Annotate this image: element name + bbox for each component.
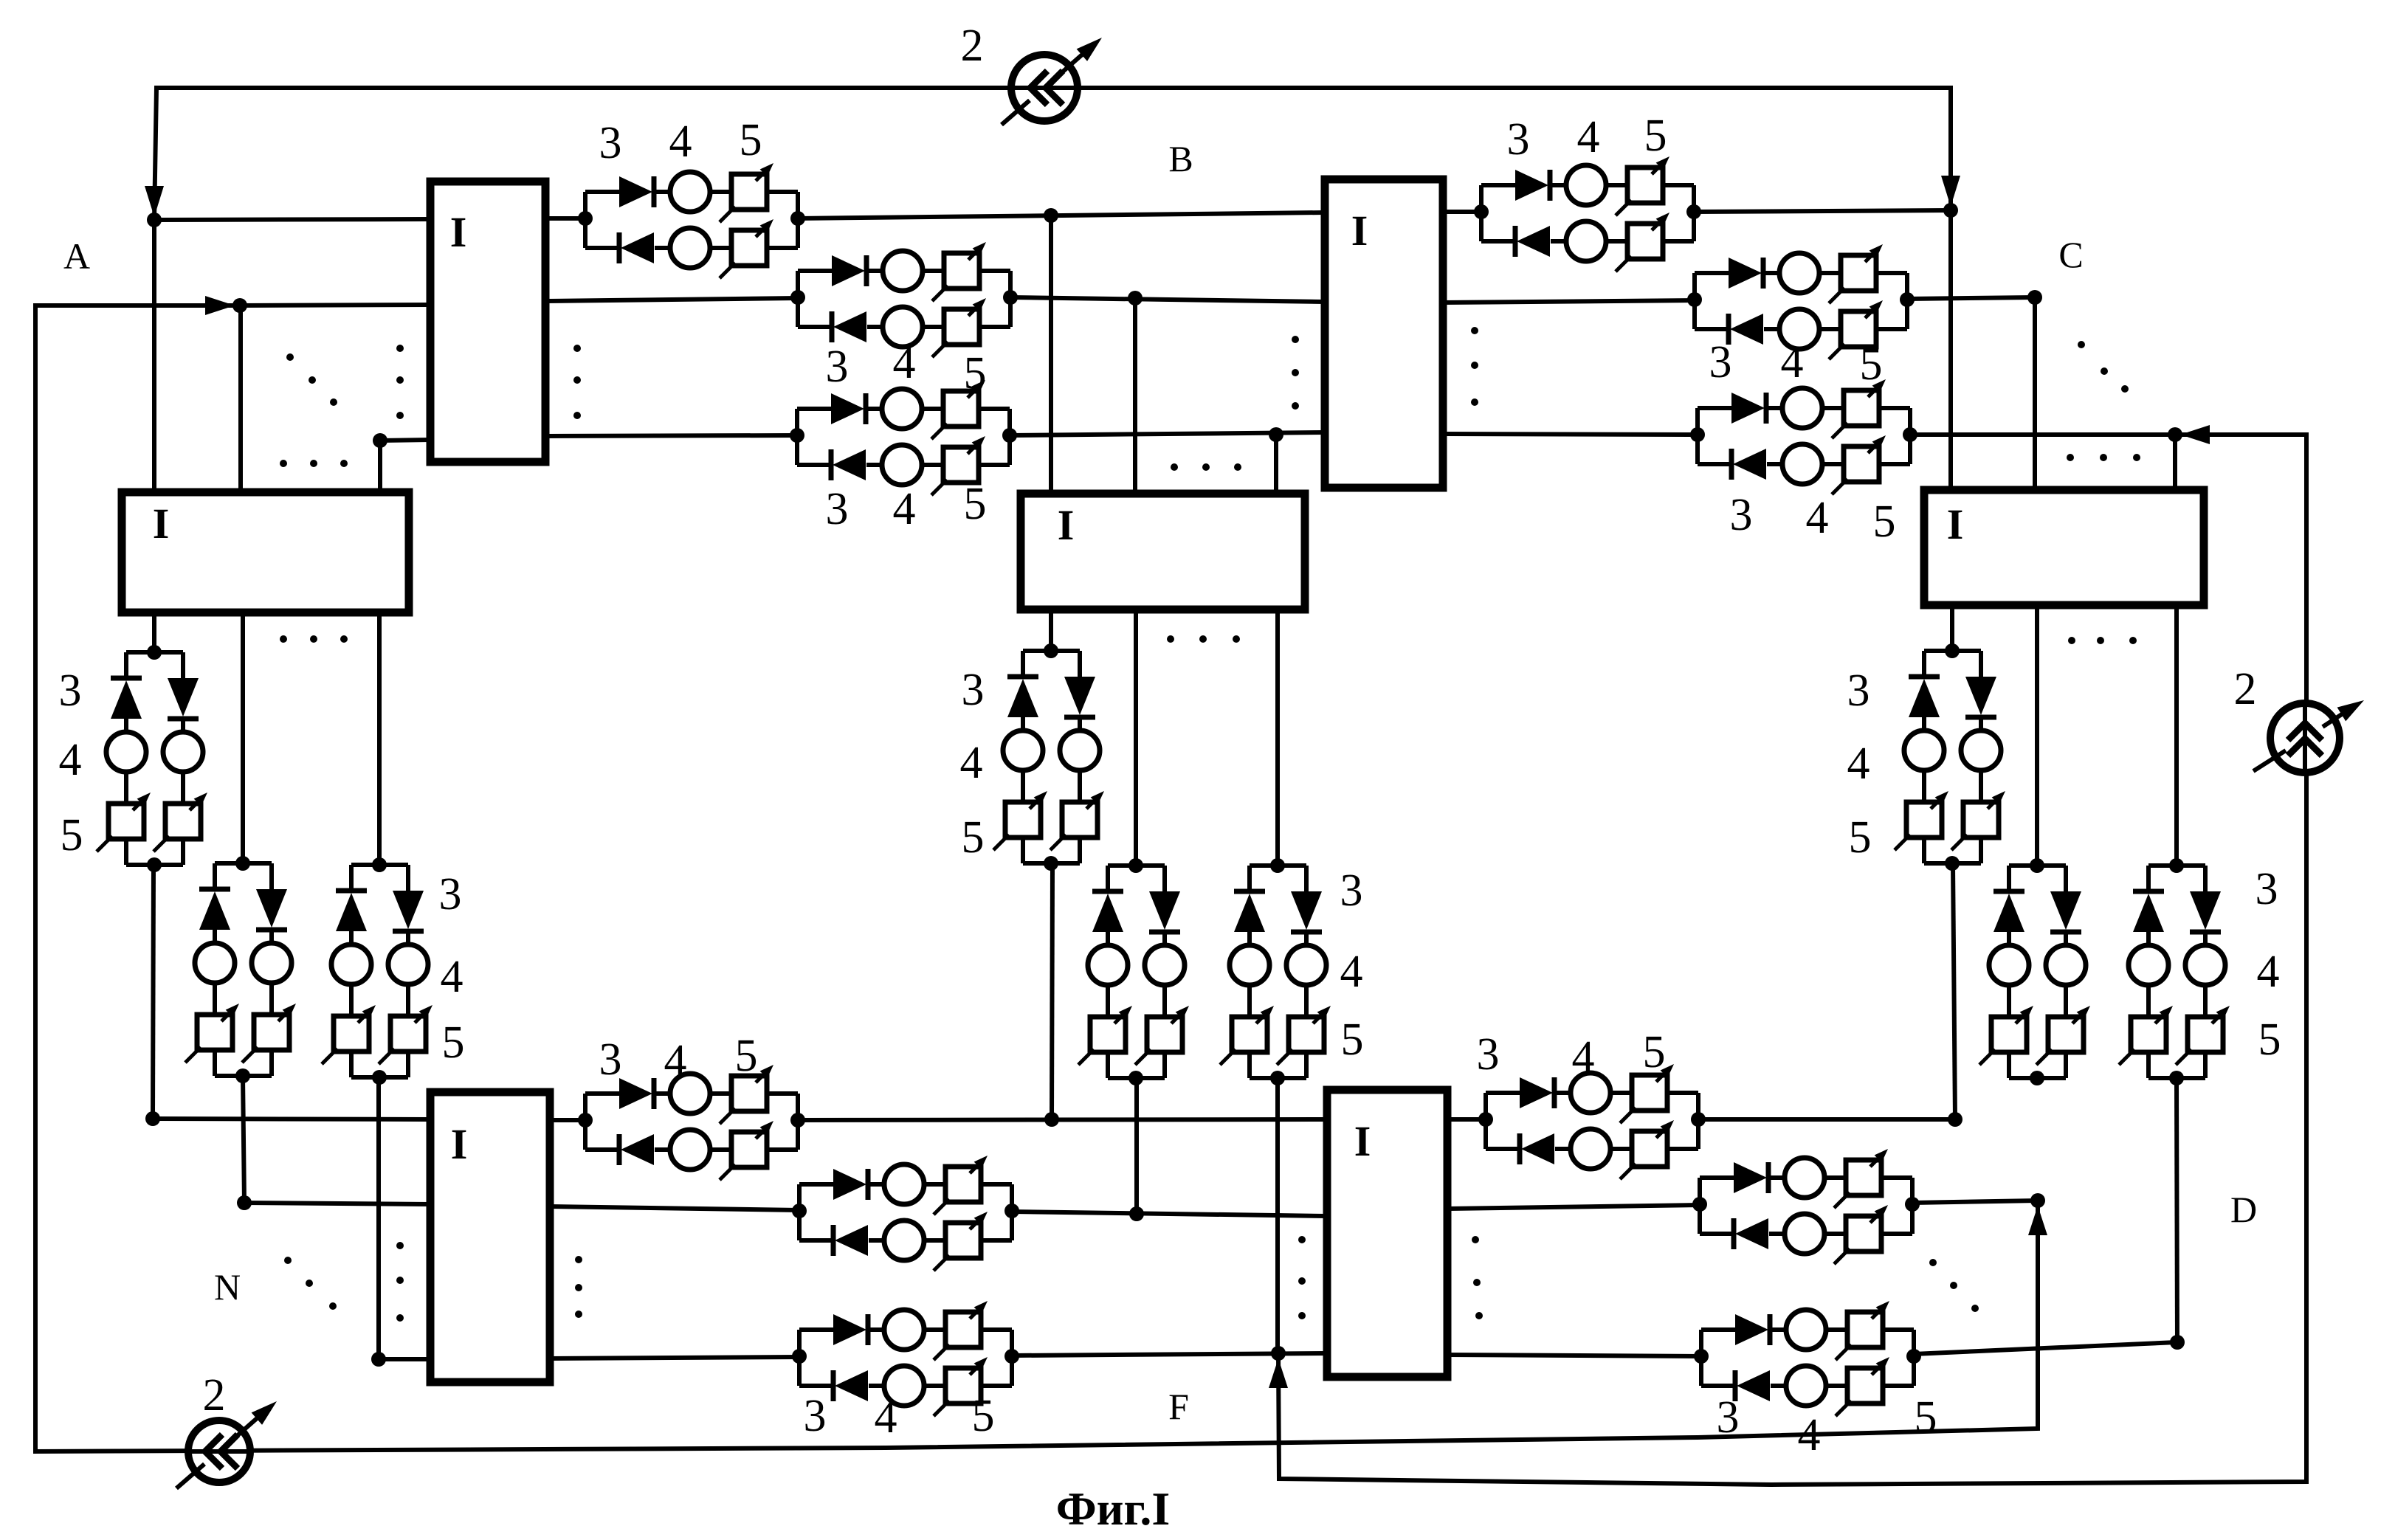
ellipsis dots below MC: [1167, 635, 1174, 643]
svg-text:5: 5: [735, 1031, 758, 1081]
diode 3 link N-F row1 reverse: [617, 1134, 622, 1165]
wire MC block to V6 chain: [1275, 610, 1280, 866]
lamp 4 V6 below mid-center left: [1230, 945, 1269, 985]
lamp 4 link N-F row2 forward: [884, 1164, 924, 1204]
diode 3 V7 below mid-right up-column: [1909, 674, 1940, 680]
node row2 right junction: [2027, 290, 2042, 305]
svg-text:5: 5: [61, 810, 83, 860]
diode 3 link B-C row1 forward: [1515, 170, 1548, 201]
wire bottom row1 left segment: [153, 1119, 430, 1119]
wire drop row3 to MC block: [1274, 435, 1278, 494]
svg-text:4: 4: [1781, 337, 1804, 387]
wire row2 chain to TR block: [1010, 297, 1325, 302]
wire V6 below mid-center top bracket: [1250, 863, 1306, 868]
attenuator 5 V5 below mid-center right: [1147, 1017, 1182, 1052]
wire bottom row2 BL block to chain: [550, 1206, 799, 1210]
svg-text:5: 5: [1915, 1392, 1937, 1443]
wire drop row3 right to MR block: [2173, 435, 2177, 490]
diode 3 link A-B row1 forward: [619, 176, 652, 207]
node V8 below mid-right bottom junction: [2030, 1071, 2044, 1085]
svg-text:Фиг.I: Фиг.I: [1056, 1482, 1171, 1535]
regulator 2 bottom-left perimeter adjust arrow: [176, 1464, 204, 1488]
wire MR block to V8 chain: [2035, 605, 2039, 866]
diode 3 link F-D row3 forward: [1735, 1314, 1768, 1345]
diode 3 link A-B row1 reverse: [617, 232, 622, 263]
lamp 4 link F-D row2 reverse: [1785, 1214, 1824, 1254]
attenuator 5 link A-B row3 reverse: [943, 447, 979, 483]
svg-text:4: 4: [669, 117, 692, 167]
lamp 4 link B-C row2 reverse: [1779, 309, 1819, 349]
diode 3 link B-C row2 forward: [1729, 258, 1762, 289]
switch unit I block top-right: [1325, 179, 1443, 488]
diode 3 V2 below mid-left down-column: [256, 889, 287, 928]
wire MC block to V5 chain: [1134, 610, 1138, 866]
node V1 below mid-left bottom junction: [147, 857, 162, 872]
wire link A-B row2 bottom branch: [798, 325, 833, 329]
wire bottom row3 BL block to chain: [550, 1357, 799, 1358]
diode 3 V2 below mid-left up-column: [199, 887, 230, 892]
attenuator 5 V1 below mid-left right: [165, 804, 201, 839]
node V4 below mid-center feed junction: [1044, 643, 1058, 658]
node link N-F row1 left junction: [578, 1113, 593, 1128]
regulator 2 right perimeter adjust arrow: [2253, 750, 2286, 771]
wire link F-D row1 left bracket: [1483, 1093, 1488, 1149]
svg-text:3: 3: [59, 666, 82, 716]
svg-text:3: 3: [1717, 1392, 1740, 1443]
attenuator 5 link F-D row2 reverse: [1846, 1216, 1881, 1251]
diode 3 V8 below mid-right up-column: [1993, 889, 2024, 894]
attenuator 5 link B-C row1 forward: [1627, 168, 1663, 203]
wire row2 TL block to chain: [545, 298, 798, 301]
svg-text:5: 5: [1341, 1015, 1364, 1065]
node V3 below mid-left feed junction: [372, 857, 387, 872]
attenuator 5 V6 below mid-center left: [1232, 1017, 1267, 1052]
lamp 4 link F-D row3 reverse: [1786, 1366, 1826, 1406]
arrowhead top bypass into A junction: [145, 186, 164, 217]
svg-text:I: I: [1354, 1117, 1371, 1165]
lamp 4 link A-B row3 forward: [882, 389, 922, 429]
node link B-C row2 right junction: [1900, 292, 1915, 307]
node row2 left junction: [232, 298, 247, 313]
node V9 below mid-right feed junction: [2169, 858, 2184, 873]
wire link F-D row2 left bracket: [1698, 1178, 1702, 1234]
ellipsis dots right of BL col: [575, 1256, 582, 1263]
wire link A-B row1 right bracket: [796, 192, 800, 248]
wire V9 below mid-right top bracket: [2148, 863, 2205, 868]
wire V2 chain to bottom row2: [243, 1076, 244, 1203]
node link N-F row3 right junction: [1004, 1349, 1019, 1364]
svg-text:5: 5: [964, 348, 987, 398]
diode 3 V9 below mid-right down-column: [2190, 891, 2221, 930]
diode 3 link B-C row1 reverse: [1513, 226, 1518, 257]
node link A-B row1 right junction: [790, 211, 805, 226]
svg-text:3: 3: [599, 118, 622, 168]
node V2 below mid-left feed junction: [235, 856, 250, 871]
attenuator 5 link B-C row3 forward: [1844, 390, 1879, 426]
diode 3 V1 below mid-left up-column: [111, 676, 142, 681]
wire link B-C row1 right bracket: [1692, 185, 1696, 241]
wire V6 below mid-center bottom bracket: [1247, 1052, 1252, 1078]
wire V8 below mid-right bottom bracket: [2007, 1052, 2011, 1078]
node top bypass/row1 right junction: [1943, 203, 1958, 218]
wire link F-D row1 bottom branch: [1486, 1147, 1521, 1151]
diode 3 link N-F row1 forward: [619, 1078, 652, 1109]
wire link B-C row3 bottom branch: [1698, 462, 1733, 466]
lamp 4 link B-C row2 forward: [1779, 253, 1819, 293]
node link A-B row3 left junction: [790, 428, 804, 443]
wire V5 below mid-center bottom bracket: [1106, 1052, 1110, 1078]
wire link B-C row1 bottom branch: [1481, 239, 1517, 244]
regulator 2 top bypass adjust arrow: [1002, 100, 1030, 125]
attenuator 5 link A-B row1 reverse: [731, 230, 767, 266]
wire row1 right chain to C drop: [1694, 210, 1951, 212]
svg-text:B: B: [1168, 138, 1193, 179]
wire MR block to V7 chain: [1950, 605, 1954, 651]
arrowhead right perimeter up into F junction: [1269, 1358, 1288, 1388]
node link F-D row1 right junction: [1691, 1112, 1706, 1127]
wire V3 chain to bottom row3: [376, 1077, 381, 1359]
wire row2 left segment (perimeter to TL block): [240, 305, 430, 305]
wire V1 below mid-left mid links: [124, 719, 128, 732]
attenuator 5 link F-D row3 forward: [1847, 1312, 1883, 1347]
lamp 4 link F-D row1 forward: [1571, 1073, 1610, 1113]
attenuator 5 V6 below mid-center right: [1289, 1017, 1324, 1052]
wire V2 below mid-left bottom bracket: [213, 1050, 217, 1076]
wire left+bottom perimeter (regulator 2 loop): [35, 305, 2038, 1451]
wire V9 below mid-right mid links: [2146, 932, 2151, 945]
node link B-C row2 left junction: [1687, 292, 1702, 307]
svg-text:5: 5: [962, 812, 985, 863]
wire link F-D row3 bottom branch: [1701, 1384, 1737, 1388]
svg-text:3: 3: [1340, 866, 1363, 916]
svg-text:3: 3: [826, 342, 849, 392]
wire link N-F row2 right bracket: [1010, 1184, 1014, 1240]
diode 3 V3 below mid-left down-column: [393, 891, 424, 929]
arrowhead perimeter up into V8 junction: [2028, 1206, 2047, 1235]
wire drop row2 right to MR block: [2033, 297, 2037, 490]
lamp 4 V8 below mid-right right: [2046, 945, 2086, 985]
lamp 4 link F-D row3 forward: [1786, 1310, 1826, 1350]
wire V2 below mid-left mid links: [213, 930, 217, 943]
svg-text:5: 5: [964, 479, 987, 529]
ellipsis dots right of BR col: [1472, 1236, 1479, 1243]
wire bottom row1 chain to BR block: [798, 1119, 1327, 1120]
attenuator 5 link N-F row1 reverse: [731, 1132, 767, 1167]
wire V5 chain to bottom row2: [1134, 1078, 1139, 1214]
lamp 4 link N-F row3 reverse: [884, 1366, 924, 1406]
wire V9 below mid-right bottom bracket: [2146, 1052, 2151, 1078]
wire link A-B row3 left bracket: [795, 409, 799, 465]
wire V4 chain to bottom row1: [1052, 863, 1052, 1119]
svg-text:5: 5: [2258, 1015, 2281, 1065]
svg-text:4: 4: [1847, 739, 1870, 789]
wire V4 below mid-center top bracket: [1023, 649, 1080, 653]
wire link F-D row2 top branch: [1700, 1175, 1735, 1180]
lamp 4 link N-F row2 reverse: [884, 1220, 924, 1260]
diode 3 V4 below mid-center down-column: [1064, 677, 1095, 715]
attenuator 5 link N-F row3 reverse: [945, 1368, 981, 1403]
wire V8 below mid-right mid links: [2007, 932, 2011, 945]
ellipsis dots right of TL col: [573, 345, 581, 352]
node V6 below mid-center feed junction: [1270, 858, 1285, 873]
wire link A-B row3 bottom branch: [797, 463, 833, 467]
wire V5 below mid-center top bracket: [1108, 863, 1165, 868]
lamp 4 V7 below mid-right right: [1961, 731, 2001, 770]
wire V3 below mid-left top bracket: [351, 863, 408, 867]
wire link B-C row1 left bracket: [1479, 185, 1483, 241]
diode 3 V8 below mid-right down-column: [2050, 891, 2081, 930]
lamp 4 link A-B row2 forward: [883, 251, 923, 291]
attenuator 5 V8 below mid-right left: [1991, 1017, 2027, 1052]
arrowhead perimeter into row2 junction: [205, 296, 235, 315]
svg-text:2: 2: [2234, 664, 2257, 714]
node V5 below mid-center bottom junction: [1128, 1071, 1143, 1085]
svg-text:I: I: [451, 1120, 468, 1168]
attenuator 5 V4 below mid-center left: [1005, 802, 1041, 838]
arrowhead top bypass into right drop: [1941, 176, 1960, 207]
node bottom row3/F junction: [1271, 1346, 1286, 1361]
wire MC block to V4 chain: [1049, 610, 1053, 651]
lamp 4 link N-F row1 forward: [670, 1074, 710, 1113]
svg-text:4: 4: [960, 738, 983, 788]
lamp 4 link N-F row3 forward: [884, 1310, 924, 1350]
node V9 below mid-right bottom junction: [2169, 1071, 2184, 1085]
wire link N-F row1 left bracket: [583, 1094, 587, 1150]
node bottom row1 left end junction: [145, 1111, 160, 1126]
lamp 4 link A-B row1 forward: [670, 172, 710, 212]
diode 3 V5 below mid-center up-column: [1092, 889, 1123, 894]
diode 3 link F-D row1 forward: [1520, 1077, 1553, 1108]
node link A-B row2 left junction: [790, 290, 805, 305]
wire V9 chain to bottom row3 end: [2177, 1078, 2177, 1342]
wire ML block to V3 chain: [377, 612, 382, 865]
wire drop row1 to MC block: [1049, 215, 1053, 494]
ellipsis dots below ML: [280, 635, 287, 643]
node bottom row3 right end junction: [2170, 1335, 2185, 1350]
svg-text:4: 4: [664, 1036, 687, 1086]
svg-text:5: 5: [972, 1391, 995, 1441]
svg-text:5: 5: [1849, 812, 1872, 863]
attenuator 5 link F-D row1 forward: [1632, 1075, 1667, 1111]
node link F-D row2 left junction: [1692, 1197, 1707, 1212]
diode 3 V7 below mid-right down-column: [1965, 677, 1996, 715]
attenuator 5 link N-F row2 reverse: [945, 1223, 981, 1258]
wire drop A junction to ML block: [152, 220, 156, 492]
node bottom row2 right end junction: [2030, 1193, 2045, 1208]
diode 3 link B-C row2 reverse: [1726, 314, 1731, 345]
lamp 4 link A-B row1 reverse: [670, 228, 710, 268]
wire V2 below mid-left top bracket: [215, 861, 272, 866]
svg-text:5: 5: [442, 1018, 465, 1068]
switch unit I block mid-center: [1021, 494, 1305, 610]
ellipsis dots right of TR col: [1471, 327, 1478, 334]
attenuator 5 V2 below mid-left right: [254, 1015, 289, 1050]
diode 3 link F-D row3 reverse: [1733, 1370, 1738, 1401]
wire bottom row1 BR block to chain: [1447, 1117, 1486, 1122]
attenuator 5 V3 below mid-left left: [334, 1016, 369, 1052]
diode 3 V1 below mid-left down-column: [168, 678, 199, 717]
node link B-C row3 right junction: [1903, 427, 1917, 442]
wire row2 right chain to V-drop: [1907, 297, 2035, 299]
wire V7 below mid-right mid links: [1922, 717, 1926, 731]
lamp 4 link B-C row1 forward: [1566, 165, 1606, 205]
regulator 2 right perimeter: [2270, 703, 2340, 773]
switch unit I block top-left: [430, 182, 545, 462]
wire link F-D row2 bottom branch: [1700, 1232, 1735, 1236]
wire V6 chain to bottom row3: [1275, 1078, 1280, 1353]
wire bottom row2 BR block to chain: [1447, 1205, 1700, 1209]
attenuator 5 link F-D row1 reverse: [1632, 1131, 1667, 1167]
wire V6 below mid-center mid links: [1247, 932, 1252, 945]
wire link N-F row3 top branch: [799, 1327, 835, 1332]
svg-text:4: 4: [875, 1392, 897, 1443]
wire V3 below mid-left mid links: [349, 931, 354, 945]
node link F-D row2 right junction: [1905, 1197, 1920, 1212]
svg-text:4: 4: [1340, 947, 1363, 997]
svg-text:4: 4: [1806, 493, 1829, 543]
wire drop row3 junction to ML block: [378, 441, 382, 492]
ellipsis dots right of BR diag: [1929, 1259, 1937, 1266]
attenuator 5 link A-B row1 forward: [731, 174, 767, 210]
svg-text:3: 3: [2256, 864, 2278, 914]
wire row1 TL block to chain: [545, 216, 585, 221]
node link F-D row3 left junction: [1694, 1349, 1709, 1364]
wire link F-D row1 top branch: [1486, 1091, 1521, 1095]
wire bottom row1 BL block to chain: [550, 1118, 585, 1122]
lamp 4 V4 below mid-center left: [1003, 731, 1043, 770]
attenuator 5 link N-F row1 forward: [731, 1076, 767, 1111]
attenuator 5 link N-F row3 forward: [945, 1312, 981, 1347]
ellipsis dots above ML: [280, 460, 287, 467]
lamp 4 link N-F row1 reverse: [670, 1130, 710, 1170]
ellipsis dots left of BL col: [396, 1242, 404, 1249]
attenuator 5 link B-C row2 forward: [1841, 255, 1876, 291]
wire row3 chain to TR block: [1010, 432, 1325, 435]
node V6 below mid-center bottom junction: [1270, 1071, 1285, 1085]
wire link N-F row1 right bracket: [796, 1094, 800, 1150]
lamp 4 link B-C row3 reverse: [1782, 444, 1822, 484]
switch unit I block bottom-left: [430, 1092, 550, 1382]
node link N-F row2 left junction: [792, 1204, 807, 1218]
wire link F-D row3 top branch: [1701, 1327, 1737, 1332]
wire bottom row1 right chain to V7 drop: [1698, 1117, 1955, 1122]
node V7 below mid-right feed junction: [1945, 643, 1960, 658]
svg-text:3: 3: [962, 665, 985, 715]
node A junction: [147, 213, 162, 227]
wire ML block to V1 chain: [152, 612, 156, 652]
node bottom row2 left end junction: [237, 1195, 252, 1210]
wire link A-B row2 left bracket: [796, 271, 800, 327]
node V8 below mid-right feed junction: [2030, 858, 2044, 873]
lamp 4 V2 below mid-left right: [252, 943, 292, 983]
diode 3 link N-F row2 reverse: [831, 1225, 836, 1256]
svg-text:4: 4: [2257, 947, 2280, 997]
wire drop top bypass to MR block: [1948, 210, 1953, 490]
node link N-F row2 right junction: [1004, 1204, 1019, 1218]
svg-text:5: 5: [1643, 1027, 1666, 1077]
wire link A-B row1 left bracket: [583, 192, 587, 248]
wire link F-D row3 right bracket: [1912, 1330, 1916, 1386]
node bottom row3 left end junction: [371, 1352, 386, 1367]
node bottom row2/V5 junction: [1129, 1206, 1144, 1221]
attenuator 5 V9 below mid-right left: [2131, 1017, 2166, 1052]
lamp 4 link F-D row1 reverse: [1571, 1129, 1610, 1169]
svg-text:4: 4: [1572, 1032, 1595, 1083]
wire link N-F row1 bottom branch: [585, 1147, 621, 1152]
node link A-B row1 left junction: [578, 211, 593, 226]
wire bottom row2 chain to BR block: [1012, 1212, 1327, 1216]
lamp 4 link A-B row3 reverse: [882, 445, 922, 485]
diode 3 V5 below mid-center down-column: [1149, 891, 1180, 930]
wire link F-D row2 right bracket: [1910, 1178, 1915, 1234]
wire link F-D row1 right bracket: [1696, 1093, 1700, 1149]
wire link B-C row1 top branch: [1481, 183, 1517, 187]
lamp 4 V3 below mid-left right: [388, 945, 428, 984]
attenuator 5 V7 below mid-right right: [1963, 802, 1999, 838]
node V1 below mid-left feed junction: [147, 645, 162, 660]
node V2 below mid-left bottom junction: [235, 1068, 250, 1083]
wire V1 chain to bottom row1: [153, 865, 154, 1119]
ellipsis dots above MC: [1171, 463, 1178, 471]
wire V4 below mid-center mid links: [1021, 717, 1025, 731]
wire link A-B row1 bottom branch: [585, 246, 621, 250]
ellipsis dots left of TL diag: [286, 353, 294, 361]
svg-text:4: 4: [1798, 1410, 1821, 1460]
svg-text:A: A: [63, 235, 90, 277]
diode 3 link A-B row3 forward: [831, 393, 864, 424]
svg-text:3: 3: [599, 1035, 622, 1085]
attenuator 5 V2 below mid-left left: [197, 1015, 232, 1050]
diode 3 V4 below mid-center up-column: [1007, 674, 1038, 680]
ellipsis dots left of TR col: [1292, 336, 1299, 343]
node V7 below mid-right bottom junction: [1945, 856, 1960, 871]
switch unit I block mid-left: [122, 492, 409, 612]
wire link N-F row1 top branch: [585, 1091, 621, 1096]
attenuator 5 link N-F row2 forward: [945, 1167, 981, 1202]
attenuator 5 link A-B row3 forward: [943, 391, 979, 427]
switch unit I block bottom-right: [1327, 1090, 1447, 1377]
lamp 4 link B-C row1 reverse: [1566, 221, 1606, 261]
svg-text:2: 2: [961, 21, 984, 71]
diode 3 link F-D row2 reverse: [1731, 1218, 1737, 1249]
wire V7 below mid-right top bracket: [1924, 649, 1981, 653]
lamp 4 link F-D row2 forward: [1785, 1158, 1824, 1198]
lamp 4 link A-B row2 reverse: [883, 307, 923, 347]
node V3 below mid-left bottom junction: [372, 1070, 387, 1085]
wire V1 below mid-left top bracket: [126, 650, 183, 655]
lamp 4 V9 below mid-right right: [2185, 945, 2225, 985]
svg-text:N: N: [214, 1266, 241, 1308]
diode 3 link F-D row1 reverse: [1517, 1133, 1523, 1164]
wire link A-B row2 top branch: [798, 269, 833, 273]
wire link B-C row2 right bracket: [1905, 273, 1909, 329]
wire row3 left segment: [380, 440, 430, 441]
ellipsis dots left of TL col: [396, 345, 404, 352]
node link B-C row1 left junction: [1474, 204, 1489, 219]
diode 3 V9 below mid-right up-column: [2133, 889, 2164, 894]
wire row2 TR block to chain: [1443, 300, 1695, 303]
diode 3 link A-B row2 forward: [832, 255, 865, 286]
wire link B-C row3 left bracket: [1695, 408, 1700, 464]
diode 3 link A-B row3 reverse: [829, 449, 834, 480]
lamp 4 V1 below mid-left right: [163, 732, 203, 772]
attenuator 5 V1 below mid-left left: [108, 804, 144, 839]
ellipsis dots above MR: [2067, 454, 2074, 461]
svg-text:3: 3: [1709, 337, 1732, 387]
wire drop row2 junction to ML block: [238, 305, 243, 492]
wire row3 TR block to chain: [1443, 434, 1698, 435]
wire link B-C row2 left bracket: [1692, 273, 1697, 329]
